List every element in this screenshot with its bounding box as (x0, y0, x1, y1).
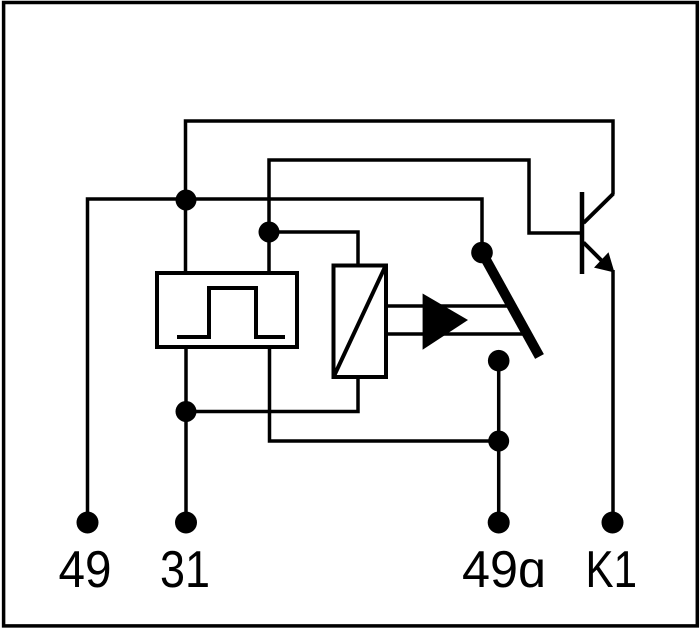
svg-text:31: 31 (160, 541, 210, 599)
svg-text:49ɑ: 49ɑ (462, 541, 546, 599)
svg-text:K1: K1 (586, 541, 638, 599)
svg-text:49: 49 (59, 541, 112, 599)
